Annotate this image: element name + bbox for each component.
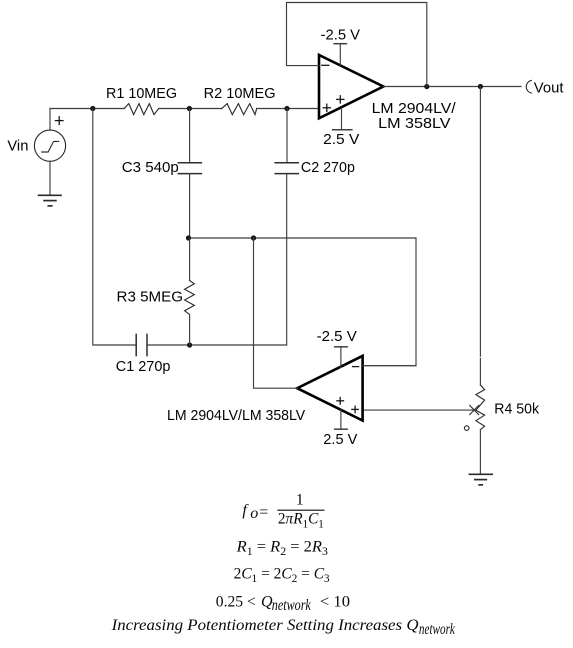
wire C2 top stem [286, 109, 288, 163]
wire R4 bottom stem [479, 430, 481, 474]
wire mid rail [189, 238, 417, 366]
wire U1 feedback loop [287, 3, 427, 87]
svg-text:R2 10MEG: R2 10MEG [204, 85, 276, 102]
wire U1 output rail [383, 86, 521, 88]
node dot mid rail left [186, 235, 191, 240]
wire R2 to op-amp U1 plus input [257, 108, 319, 110]
resistor R3 [185, 281, 195, 315]
wire C1 right to R3 bottom and C2 bottom [147, 174, 287, 345]
svg-text:2C1 = 2C2 = C3: 2C1 = 2C2 = C3 [234, 565, 330, 585]
node dot feedback branch [424, 84, 429, 89]
svg-text:1: 1 [296, 492, 304, 509]
U2 inverting input mark [353, 366, 359, 368]
resistor R2 [222, 104, 257, 115]
capacitor C2 [275, 163, 298, 174]
wire R1 to R2 [159, 108, 222, 110]
capacitor C1 [136, 334, 147, 355]
svg-text:R1 10MEG: R1 10MEG [106, 85, 177, 102]
svg-text:C2 270p: C2 270p [301, 159, 355, 176]
wire R3 bottom stem [189, 315, 191, 346]
node dot mid rail U2 output branch [251, 235, 256, 240]
svg-text:2.5 V: 2.5 V [323, 131, 359, 148]
svg-text:-2.5 V: -2.5 V [321, 26, 360, 43]
U1 positive supply tap [333, 108, 352, 130]
wire top rail: Vin to R1 [50, 108, 124, 110]
wire C3 top stem [189, 109, 191, 163]
Vin plus polarity mark [55, 117, 63, 125]
svg-text:0.25 <: 0.25 < [216, 593, 256, 610]
wire R4 top stem [479, 87, 481, 386]
wire C3 bottom stem to mid rail [189, 174, 191, 238]
svg-text:=: = [259, 504, 268, 521]
U2 non-inverting input mark [352, 406, 358, 412]
potentiometer R4 zigzag [476, 385, 485, 430]
U2 positive supply mark [337, 398, 344, 405]
svg-text:Vin: Vin [7, 138, 28, 155]
op-amp U2 [297, 356, 362, 421]
U1 inverting input mark [322, 64, 329, 66]
svg-text:C1 270p: C1 270p [116, 358, 171, 375]
svg-text:C3 540p: C3 540p [122, 159, 179, 176]
svg-text:2.5 V: 2.5 V [323, 431, 357, 448]
op-amp U1 [319, 55, 383, 118]
svg-text:-2.5 V: -2.5 V [317, 328, 357, 345]
wire left dropper x=92.6 [93, 109, 136, 346]
U2 negative supply tap [335, 347, 347, 368]
svg-text:LM 358LV: LM 358LV [378, 115, 450, 132]
wire Vin bottom [49, 161, 51, 195]
svg-text:Increasing Potentiometer Setti: Increasing Potentiometer Setting Increas… [111, 617, 419, 634]
U1 negative supply tap [334, 44, 346, 66]
wire U2 inverting input [363, 365, 416, 367]
terminal Vout [526, 80, 531, 93]
svg-text:2πR1C1: 2πR1C1 [278, 511, 324, 531]
resistor R1 [124, 104, 159, 115]
svg-text:R4 50k: R4 50k [494, 400, 539, 417]
node dot C3 top [187, 106, 192, 111]
svg-text:network: network [272, 597, 312, 614]
capacitor C3 [178, 163, 201, 174]
svg-text:o: o [250, 505, 258, 522]
formula 0.25 < Qnetwork < 10 [216, 593, 350, 614]
ground (below Vin) [39, 195, 61, 206]
R4 wiper arrow [363, 405, 479, 414]
svg-text:R3 5MEG: R3 5MEG [117, 289, 184, 306]
wire R3 top stem [189, 238, 191, 281]
node dot left dropper [90, 106, 95, 111]
wire Vin top [49, 109, 51, 131]
wire U2 output to mid rail [254, 238, 298, 388]
U1 non-inverting input mark [323, 104, 330, 111]
ground (below R4) [469, 474, 492, 485]
R4 wiper terminal circle [464, 426, 469, 431]
U2 positive supply tap [335, 409, 347, 429]
node dot R4 branch [478, 84, 483, 89]
voltage source Vin [34, 130, 65, 161]
formula fo = 1/(2piR1C1) [242, 492, 324, 531]
svg-text:LM 2904LV/LM 358LV: LM 2904LV/LM 358LV [167, 407, 305, 424]
U1 positive supply mark [337, 96, 344, 103]
node dot C2 top [284, 106, 289, 111]
svg-text:network: network [419, 621, 456, 638]
caption Increasing Potentiometer Setting Increases Qnetwork [111, 617, 456, 638]
svg-text:Vout: Vout [534, 80, 565, 97]
svg-text:< 10: < 10 [320, 593, 350, 610]
node dot R3 bottom [187, 342, 192, 347]
